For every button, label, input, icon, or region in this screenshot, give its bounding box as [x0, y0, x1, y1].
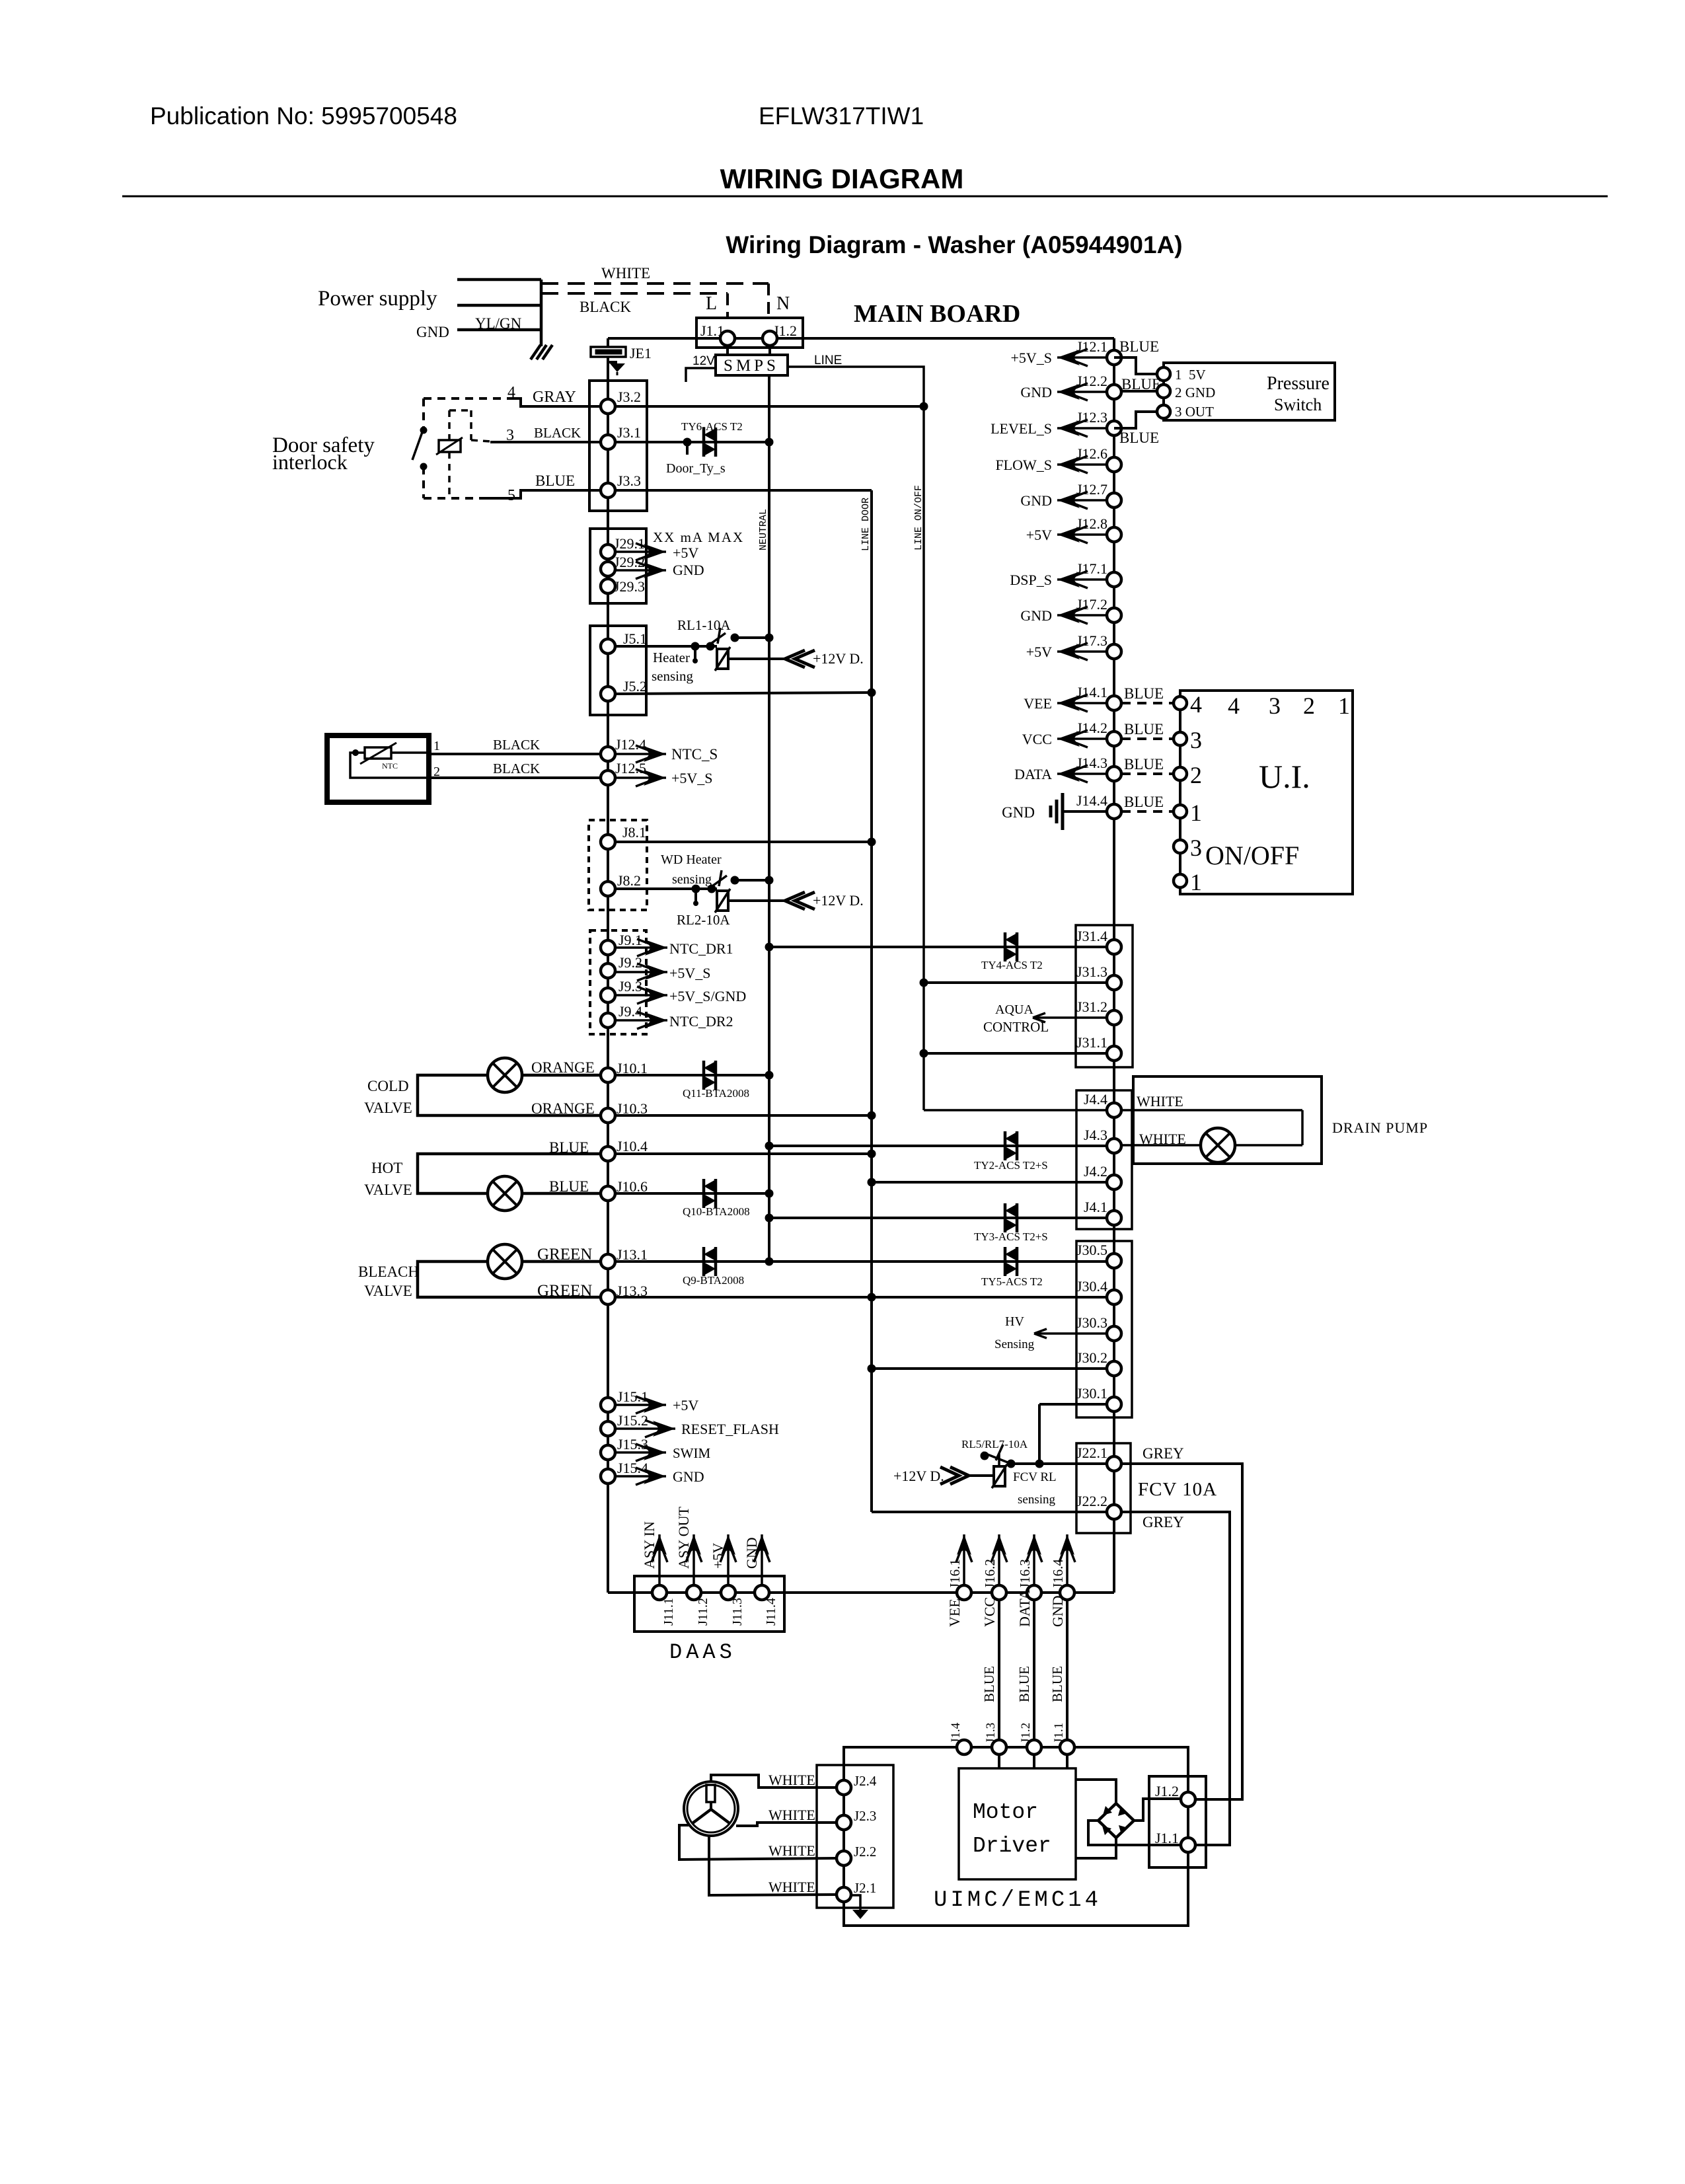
svg-text:AQUA: AQUA	[995, 1002, 1033, 1017]
SMPS box	[716, 355, 788, 375]
svg-text:+5V_S: +5V_S	[1010, 350, 1052, 366]
svg-text:+5V: +5V	[673, 1397, 698, 1413]
wire hot valve bracket	[418, 1154, 601, 1193]
connector J1 box	[696, 318, 803, 348]
wire GND blue column	[1066, 1600, 1068, 1768]
motor driver box	[959, 1768, 1076, 1879]
svg-text:J12.4: J12.4	[615, 736, 646, 753]
svg-text:ORANGE: ORANGE	[531, 1100, 595, 1117]
svg-text:WHITE: WHITE	[768, 1807, 815, 1823]
svg-text:Driver: Driver	[973, 1834, 1051, 1858]
wire J30.1 to J22.1 row	[1039, 1403, 1107, 1406]
svg-text:RESET_FLASH: RESET_FLASH	[681, 1421, 779, 1437]
svg-text:2: 2	[1303, 693, 1315, 719]
arrow +5V_S J12.1	[1057, 356, 1107, 359]
relay RL5 contact	[981, 1452, 989, 1460]
svg-text:J8.2: J8.2	[617, 872, 641, 889]
pin J2.2	[837, 1851, 851, 1865]
wire J8.2 row	[615, 887, 717, 890]
svg-text:4: 4	[1228, 693, 1240, 719]
svg-text:VCC: VCC	[981, 1597, 998, 1627]
power supply junction vertical	[540, 280, 543, 346]
main bus right vertical	[1113, 338, 1115, 1593]
arrow AQUA CONTROL	[1033, 1016, 1107, 1019]
svg-text:GRAY: GRAY	[533, 389, 576, 406]
jumper JE1	[607, 338, 609, 347]
svg-text:N: N	[776, 293, 790, 314]
svg-text:FCV 10A: FCV 10A	[1138, 1479, 1217, 1500]
svg-text:Door_Ty_s: Door_Ty_s	[666, 461, 726, 476]
power supply line L	[457, 278, 541, 282]
wire J10.1 to triac Q11	[615, 1074, 769, 1076]
svg-text:DAAS: DAAS	[669, 1640, 736, 1665]
NTC thermistor RT1	[365, 747, 391, 759]
svg-text:J30.2: J30.2	[1076, 1349, 1107, 1366]
arrow GND J12.2	[1057, 391, 1107, 393]
svg-text:BLACK: BLACK	[534, 425, 581, 441]
UI pin 2	[1174, 767, 1187, 780]
svg-text:J1.4: J1.4	[949, 1722, 963, 1743]
svg-text:SMPS: SMPS	[724, 357, 779, 375]
svg-text:sensing: sensing	[672, 872, 712, 887]
svg-text:J30.4: J30.4	[1076, 1278, 1107, 1295]
hot valve solenoid	[488, 1176, 522, 1211]
pressure switch pin 1	[1157, 367, 1170, 381]
main bus left vertical	[607, 357, 609, 1593]
neutral bus vertical	[768, 375, 770, 1261]
svg-text:GND: GND	[673, 1468, 704, 1485]
power supply GND wire	[457, 328, 541, 332]
svg-text:J31.2: J31.2	[1076, 998, 1107, 1015]
svg-text:BLUE: BLUE	[1124, 794, 1164, 810]
svg-text:+12V D.: +12V D.	[893, 1468, 944, 1484]
connector DAAS box	[634, 1576, 784, 1632]
svg-text:ASY OUT: ASY OUT	[675, 1507, 692, 1569]
arrow VCC J14.2	[1057, 737, 1107, 740]
wire GREY J22.1 to J1.2	[1121, 1464, 1242, 1799]
svg-text:J1.2: J1.2	[1155, 1783, 1179, 1799]
svg-text:BLACK: BLACK	[580, 299, 631, 315]
svg-text:VALVE: VALVE	[364, 1100, 412, 1116]
wire J10.6 to triac Q10	[615, 1192, 769, 1195]
wire J1.2 to SMPS	[768, 346, 771, 355]
svg-text:J30.3: J30.3	[1076, 1314, 1107, 1331]
pressure switch pin 2	[1157, 385, 1170, 398]
wire bridge left to J1.1	[1088, 1821, 1180, 1845]
door relay coil K1	[448, 410, 451, 440]
wire neutral to TY2 J4.3	[769, 1145, 1107, 1147]
svg-text:WHITE: WHITE	[601, 265, 650, 282]
pin J16.1	[957, 1585, 971, 1600]
triac TY6	[702, 428, 706, 457]
relay RL1 contact	[706, 642, 715, 651]
svg-text:interlock: interlock	[272, 450, 348, 474]
wire J4.4 to pump	[1121, 1109, 1302, 1111]
svg-text:5: 5	[507, 487, 515, 504]
wire motor to J2.2	[679, 1825, 837, 1860]
NTC sensor box	[327, 735, 429, 802]
wire BLACK dashed	[541, 292, 728, 295]
svg-text:GND: GND	[743, 1537, 760, 1569]
wire J10.3 row	[615, 1114, 872, 1117]
arrow J16.3	[1033, 1534, 1035, 1585]
svg-text:DATA: DATA	[1014, 766, 1052, 782]
svg-text:BLUE: BLUE	[1016, 1666, 1032, 1702]
svg-text:HV: HV	[1005, 1314, 1024, 1329]
svg-text:RL5/RL7-10A: RL5/RL7-10A	[961, 1438, 1028, 1450]
wire J5.1 row	[615, 645, 717, 648]
wire Q11 to neutral	[765, 1071, 774, 1080]
wire J8.1 row	[615, 841, 872, 843]
arrow +12V D to RL2	[728, 899, 785, 902]
arrow J16.2	[998, 1534, 1000, 1585]
svg-text:3: 3	[1190, 835, 1202, 861]
svg-text:+12V D.: +12V D.	[813, 892, 864, 909]
wire bleach valve bracket	[418, 1261, 601, 1297]
svg-text:J30.5: J30.5	[1076, 1242, 1107, 1258]
svg-text:J3.1: J3.1	[617, 424, 641, 441]
wire J22.1 row	[1011, 1462, 1107, 1465]
svg-text:1: 1	[433, 739, 440, 753]
pin J1.3 motor board	[992, 1740, 1006, 1754]
arrow +5V J17.3	[1057, 650, 1107, 653]
svg-text:GND: GND	[673, 562, 704, 578]
door interlock dashed outline	[424, 397, 510, 400]
svg-text:GND: GND	[1049, 1595, 1066, 1627]
pin J1.1 motor board	[1060, 1740, 1074, 1754]
pin J16.4	[1060, 1585, 1074, 1600]
relay RL5 coil	[994, 1466, 1005, 1486]
svg-text:J11.2: J11.2	[696, 1598, 710, 1626]
wire J10.4 row	[615, 1152, 872, 1155]
UI pin 4	[1174, 697, 1187, 710]
svg-text:FCV RL: FCV RL	[1013, 1470, 1057, 1484]
wire VCC blue column	[998, 1600, 1000, 1768]
svg-text:J12.5: J12.5	[615, 760, 646, 776]
ground chassis symbol	[531, 345, 541, 359]
svg-text:WHITE: WHITE	[768, 1842, 815, 1859]
svg-text:J15.3: J15.3	[617, 1436, 648, 1452]
pin J16.3	[1027, 1585, 1041, 1600]
svg-text:J1.1: J1.1	[1155, 1830, 1179, 1846]
svg-text:sensing: sensing	[1018, 1493, 1056, 1507]
cold valve solenoid	[488, 1058, 522, 1092]
svg-text:NTC_S: NTC_S	[671, 746, 718, 763]
svg-text:BLEACH: BLEACH	[358, 1263, 419, 1280]
wire motor to J2.3	[736, 1823, 837, 1826]
pin J11.4	[755, 1585, 769, 1600]
svg-text:GND: GND	[1002, 804, 1035, 821]
arrow LEVEL_S J12.3	[1057, 427, 1107, 430]
svg-text:+5V: +5V	[710, 1543, 726, 1569]
svg-text:J1.1: J1.1	[1052, 1723, 1066, 1743]
pin J1.4 motor board	[957, 1740, 971, 1754]
svg-text:LINE DOOR: LINE DOOR	[860, 498, 872, 551]
svg-text:BLUE: BLUE	[1124, 756, 1164, 772]
door bus vertical	[870, 490, 873, 1512]
wire J12.2 to pressure switch	[1121, 390, 1157, 393]
svg-text:BLUE: BLUE	[1049, 1666, 1065, 1702]
svg-text:NTC: NTC	[382, 761, 398, 771]
wire WHITE dashed	[541, 282, 768, 285]
UI pin 1	[1174, 874, 1187, 887]
drain pump box	[1133, 1076, 1322, 1164]
svg-text:12V: 12V	[693, 354, 715, 368]
svg-text:1: 1	[1338, 693, 1350, 719]
UI box	[1180, 691, 1353, 894]
svg-text:J5.1: J5.1	[623, 630, 647, 647]
UI pin 3	[1174, 840, 1187, 853]
motor M1	[684, 1782, 738, 1836]
wire J13.3 row to J30.4	[615, 1296, 1107, 1299]
svg-text:J16.2: J16.2	[982, 1559, 998, 1589]
pressure switch pin 3	[1157, 405, 1170, 418]
svg-text:NTC_DR1: NTC_DR1	[669, 940, 733, 957]
relay RL2 contact	[708, 885, 716, 893]
UIMC outer box	[844, 1747, 1188, 1926]
svg-text:ON/OFF: ON/OFF	[1205, 841, 1299, 870]
svg-text:+5V_S: +5V_S	[671, 770, 713, 786]
pin J11.1	[652, 1585, 667, 1600]
svg-text:J1.3: J1.3	[984, 1723, 998, 1743]
pressure switch box	[1164, 363, 1335, 420]
svg-text:WHITE: WHITE	[1137, 1093, 1183, 1110]
connector J31 box	[1076, 925, 1133, 1067]
wire DATA blue column	[1033, 1600, 1035, 1768]
svg-text:BLUE: BLUE	[1119, 338, 1159, 355]
connector J5 box	[590, 626, 646, 715]
arrow DSP_S J17.1	[1057, 578, 1107, 581]
svg-text:BLUE: BLUE	[1119, 430, 1159, 446]
wire cold valve bracket	[418, 1075, 601, 1115]
svg-text:J31.4: J31.4	[1076, 928, 1107, 944]
arrow ASY OUT	[693, 1534, 695, 1585]
bridge rectifier D1	[1098, 1803, 1134, 1838]
svg-text:J11.1: J11.1	[661, 1598, 676, 1626]
svg-text:Pressure: Pressure	[1267, 373, 1329, 394]
arrow J16.1	[963, 1534, 965, 1585]
ground arrow below JE1	[607, 357, 609, 362]
svg-text:J10.4: J10.4	[617, 1138, 648, 1154]
svg-text:RL1-10A: RL1-10A	[677, 617, 731, 633]
svg-text:J5.2: J5.2	[623, 678, 647, 695]
connector J30 box	[1076, 1241, 1132, 1417]
svg-text:J3.2: J3.2	[617, 389, 641, 405]
wire TY6 to neutral	[765, 438, 774, 447]
wire J12.3 to pressure switch	[1114, 412, 1157, 428]
svg-text:Motor: Motor	[973, 1800, 1038, 1825]
svg-text:JE1: JE1	[630, 345, 652, 361]
pin J11.2	[687, 1585, 701, 1600]
svg-text:+12V D.: +12V D.	[813, 650, 864, 667]
svg-text:NEUTRAL: NEUTRAL	[758, 509, 769, 550]
UI pin 1	[1174, 805, 1187, 818]
svg-text:J2.4: J2.4	[854, 1773, 877, 1789]
triac Q10	[702, 1179, 706, 1208]
svg-text:+5V: +5V	[1026, 527, 1052, 543]
svg-text:Switch: Switch	[1274, 395, 1322, 414]
wire door bus to J4.2	[872, 1181, 1107, 1184]
svg-text:GND: GND	[1020, 384, 1052, 400]
arrow GND J17.2	[1057, 614, 1107, 617]
triac TY3	[1004, 1203, 1007, 1232]
wire motor to J2.4	[711, 1775, 837, 1788]
arrow GND	[761, 1534, 763, 1585]
triac TY2	[1004, 1131, 1007, 1160]
connector J22 box	[1076, 1443, 1131, 1533]
triac Q9	[702, 1247, 706, 1276]
svg-text:SWIM: SWIM	[673, 1445, 710, 1461]
svg-text:J30.1: J30.1	[1076, 1385, 1107, 1402]
svg-text:LEVEL_S: LEVEL_S	[991, 420, 1052, 437]
arrow DATA J14.3	[1057, 772, 1107, 775]
wire Q10 to neutral	[765, 1189, 774, 1198]
wire motor to J2.1	[709, 1836, 837, 1895]
svg-text:J3.3: J3.3	[617, 472, 641, 489]
svg-text:GND: GND	[1020, 492, 1052, 509]
svg-text:Heater: Heater	[653, 650, 690, 665]
wire door bus to J22.2	[872, 1511, 1107, 1513]
svg-text:J4.2: J4.2	[1084, 1163, 1107, 1180]
wire J3.1 to triac TY6	[615, 441, 769, 443]
svg-text:GREY: GREY	[1142, 1514, 1184, 1530]
svg-text:Sensing: Sensing	[994, 1337, 1035, 1351]
svg-text:J4.4: J4.4	[1084, 1091, 1107, 1108]
svg-text:TY3-ACS T2+S: TY3-ACS T2+S	[974, 1230, 1048, 1243]
triac Q11	[702, 1061, 706, 1090]
connector J3 box	[589, 381, 647, 511]
pin J16.2	[992, 1585, 1006, 1600]
wire line bus to J31.1	[924, 1052, 1107, 1055]
svg-text:L: L	[706, 293, 717, 314]
svg-text:WHITE: WHITE	[768, 1879, 815, 1895]
wire door bus to J30.2	[872, 1367, 1107, 1370]
svg-text:DATA: DATA	[1016, 1589, 1033, 1627]
connector J4 box	[1076, 1090, 1132, 1229]
svg-text:GND: GND	[1020, 607, 1052, 624]
arrow GND J12.7	[1057, 499, 1107, 502]
svg-text:Power supply: Power supply	[318, 287, 437, 311]
svg-text:WIRING DIAGRAM: WIRING DIAGRAM	[720, 163, 964, 194]
wire neutral to TY3 J4.1	[769, 1217, 1107, 1219]
svg-text:VEE: VEE	[1024, 695, 1052, 712]
svg-text:TY5-ACS T2: TY5-ACS T2	[981, 1275, 1043, 1288]
power supply line N	[457, 304, 541, 307]
svg-text:GND: GND	[416, 324, 449, 340]
svg-text:2 GND: 2 GND	[1175, 385, 1215, 400]
arrow ASY IN	[658, 1534, 661, 1585]
svg-text:J2.3: J2.3	[854, 1808, 876, 1824]
wire top row	[608, 337, 720, 340]
arrow GND J29.2	[615, 569, 666, 572]
svg-text:TY4-ACS T2: TY4-ACS T2	[981, 959, 1043, 971]
svg-text:Publication No: 5995700548: Publication No: 5995700548	[150, 102, 457, 130]
svg-text:LINE ON/OFF: LINE ON/OFF	[913, 485, 924, 550]
connector J1 motor box	[1149, 1776, 1206, 1867]
arrow +5V J12.8	[1057, 533, 1107, 536]
pin J2.3	[837, 1815, 851, 1830]
svg-text:J22.1: J22.1	[1076, 1445, 1107, 1461]
ground at J2.1	[851, 1895, 860, 1910]
arrow HV sensing	[1034, 1332, 1107, 1335]
svg-text:ORANGE: ORANGE	[531, 1059, 595, 1076]
title rule	[122, 196, 1608, 198]
svg-text:J15.2: J15.2	[617, 1412, 648, 1429]
svg-text:DRAIN PUMP: DRAIN PUMP	[1332, 1119, 1428, 1136]
svg-text:J29.2: J29.2	[614, 554, 645, 570]
triac TY4	[1004, 932, 1007, 961]
triac TY5	[1004, 1247, 1007, 1276]
pin J1.2 motor board	[1027, 1740, 1041, 1754]
svg-text:DSP_S: DSP_S	[1010, 572, 1052, 588]
svg-text:J8.1: J8.1	[622, 824, 646, 841]
wire motor driver to bridge top	[1076, 1780, 1116, 1803]
svg-text:CONTROL: CONTROL	[983, 1019, 1049, 1035]
svg-text:3: 3	[1269, 693, 1281, 719]
svg-text:BLUE: BLUE	[981, 1666, 997, 1702]
wire J1.1 to SMPS	[726, 346, 729, 355]
wire bridge bottom to motor driver	[1076, 1838, 1116, 1858]
svg-text:+5V: +5V	[673, 545, 698, 561]
wire J5.2 row	[615, 693, 872, 694]
svg-text:J4.3: J4.3	[1084, 1127, 1107, 1143]
svg-text:J16.3: J16.3	[1017, 1559, 1033, 1589]
svg-text:1: 1	[1190, 800, 1202, 826]
wire bridge right to J1.2	[1134, 1799, 1180, 1821]
wire line bus to J31.3	[924, 981, 1107, 984]
wire GREY J22.2 to J1.1	[1121, 1512, 1230, 1845]
wire neutral to TY4	[769, 946, 1107, 948]
svg-text:3 OUT: 3 OUT	[1175, 404, 1214, 420]
svg-text:RL2-10A: RL2-10A	[677, 912, 730, 928]
svg-text:3: 3	[1190, 727, 1202, 753]
svg-text:J9.2: J9.2	[618, 954, 642, 971]
svg-text:Q10-BTA2008: Q10-BTA2008	[683, 1205, 750, 1218]
connector J9 dashed box	[590, 930, 646, 1034]
svg-text:ASY IN: ASY IN	[641, 1521, 657, 1569]
svg-text:UIMC/EMC14: UIMC/EMC14	[934, 1888, 1102, 1913]
svg-text:J31.3: J31.3	[1076, 963, 1107, 980]
svg-text:J11.4: J11.4	[764, 1598, 778, 1626]
svg-text:J29.3: J29.3	[614, 578, 645, 595]
arrow +12V D to RL1	[728, 658, 785, 660]
svg-text:J16.4: J16.4	[1050, 1559, 1066, 1589]
svg-text:HOT: HOT	[371, 1160, 402, 1176]
svg-text:TY6-ACS T2: TY6-ACS T2	[681, 420, 743, 433]
main bus bottom row to DAAS	[608, 1591, 1114, 1594]
svg-text:VCC: VCC	[1022, 731, 1052, 747]
svg-text:WHITE: WHITE	[768, 1772, 815, 1788]
svg-text:BLUE: BLUE	[535, 472, 575, 489]
pin J2.1	[837, 1887, 851, 1902]
svg-text:J4.1: J4.1	[1084, 1199, 1107, 1215]
connector J2 box	[817, 1765, 893, 1908]
arrow VEE J14.1	[1057, 702, 1107, 704]
svg-text:GREY: GREY	[1142, 1445, 1184, 1462]
svg-text:Q9-BTA2008: Q9-BTA2008	[683, 1274, 744, 1287]
svg-text:GREEN: GREEN	[537, 1282, 592, 1300]
svg-text:VALVE: VALVE	[364, 1283, 412, 1299]
svg-text:J16.1: J16.1	[947, 1559, 963, 1589]
connector J29 box	[590, 529, 646, 603]
svg-text:sensing: sensing	[652, 668, 694, 684]
svg-text:J29.1: J29.1	[614, 535, 645, 552]
svg-text:Wiring Diagram - Washer (A0594: Wiring Diagram - Washer (A05944901A)	[726, 231, 1182, 258]
svg-text:MAIN BOARD: MAIN BOARD	[854, 300, 1020, 328]
svg-text:COLD: COLD	[367, 1078, 409, 1094]
wire J12.1 to pressure switch	[1114, 358, 1157, 374]
arrow +5V	[727, 1534, 730, 1585]
